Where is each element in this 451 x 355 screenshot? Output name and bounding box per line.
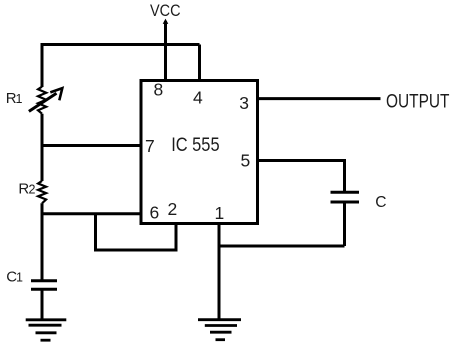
wire left rail lower to C1 [41, 203, 44, 280]
ground G2 under pin 1 [198, 320, 241, 340]
wire pin 1 branch to C [219, 245, 345, 248]
svg-text:C1: C1 [6, 269, 23, 286]
svg-text:R1: R1 [6, 90, 23, 107]
wire VCC stub to pin 8 [164, 21, 167, 82]
capacitor C1 bottom plate [31, 288, 57, 291]
wire left rail middle [41, 114, 44, 181]
svg-text:7: 7 [145, 136, 155, 156]
wire trigger loop to pin 2 [96, 214, 177, 250]
svg-text:3: 3 [239, 93, 249, 113]
ground G1 under C1 [26, 320, 67, 340]
resistor R2 (zigzag) [38, 181, 46, 203]
wire pin 1 to ground [218, 224, 221, 321]
resistor R1 (variable, zigzag) [38, 87, 46, 114]
svg-text:1: 1 [215, 203, 225, 223]
wire pin 5 to capacitor C [258, 161, 345, 192]
svg-text:OUTPUT: OUTPUT [386, 91, 450, 113]
capacitor C top plate [331, 191, 360, 194]
wire pin 4 stub [198, 45, 201, 83]
wire pin 3 output [258, 97, 381, 100]
svg-text:4: 4 [193, 87, 203, 107]
capacitor C1 top plate [31, 279, 57, 282]
wire left rail upper [41, 45, 44, 88]
R1 wiper arrow shaft [29, 93, 57, 111]
wire pin 6 [42, 212, 141, 215]
VCC arrowhead [163, 19, 169, 24]
wire capacitor C bottom lead [343, 204, 346, 247]
svg-text:IC 555: IC 555 [171, 135, 219, 156]
svg-text:2: 2 [168, 199, 178, 219]
wire top rail [42, 45, 200, 47]
svg-text:VCC: VCC [150, 2, 181, 20]
svg-text:6: 6 [150, 203, 160, 223]
svg-text:R2: R2 [18, 181, 35, 198]
svg-text:8: 8 [154, 79, 164, 99]
R1 arrowhead [50, 88, 62, 100]
op-amp U1 IC 555 box [141, 81, 258, 224]
wire pin 7 [42, 144, 141, 147]
svg-text:5: 5 [241, 151, 251, 171]
wire C1 bottom lead [41, 290, 44, 320]
capacitor C bottom plate [331, 201, 360, 204]
svg-text:C: C [375, 194, 386, 211]
